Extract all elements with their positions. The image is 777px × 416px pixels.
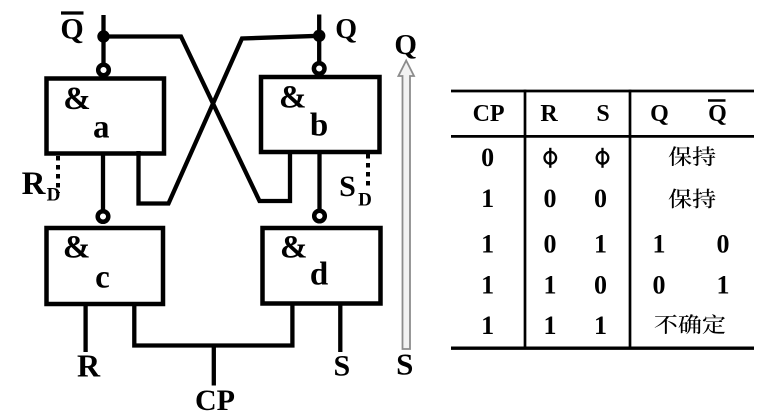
svg-text:&: & xyxy=(280,229,308,265)
truth table vertical divider RS/QQbar xyxy=(629,90,632,349)
output bubble of gate b xyxy=(314,63,325,74)
wire Qbar output stub xyxy=(101,15,105,64)
wire S input stub xyxy=(338,303,342,353)
svg-text:0: 0 xyxy=(594,184,607,213)
svg-text:D: D xyxy=(47,185,61,206)
nand gate a xyxy=(47,79,165,154)
svg-text:&: & xyxy=(63,81,91,117)
wire Q output stub xyxy=(317,15,321,63)
nand gate b xyxy=(261,77,380,152)
svg-text:Q: Q xyxy=(650,101,669,127)
svg-text:1: 1 xyxy=(544,311,557,340)
output bubble of gate d xyxy=(314,211,325,222)
svg-text:S: S xyxy=(396,347,413,382)
svg-text:Q: Q xyxy=(394,29,417,61)
svg-text:&: & xyxy=(63,230,91,266)
row1 R value phi xyxy=(545,148,557,168)
output bubble of gate c xyxy=(98,211,109,222)
svg-text:0: 0 xyxy=(481,143,494,172)
row1 result baochi xyxy=(669,146,716,166)
svg-text:1: 1 xyxy=(481,271,494,300)
svg-text:Q: Q xyxy=(708,101,727,127)
svg-text:R: R xyxy=(22,166,47,202)
svg-text:1: 1 xyxy=(544,271,557,300)
svg-text:R: R xyxy=(77,348,101,384)
junction dot node Q xyxy=(313,30,325,42)
svg-text:b: b xyxy=(310,108,328,144)
svg-text:a: a xyxy=(93,109,110,145)
svg-text:0: 0 xyxy=(544,184,557,213)
wire gate c output to gate a input xyxy=(101,153,105,210)
svg-text:Q: Q xyxy=(60,13,83,46)
svg-text:CP: CP xyxy=(195,384,235,416)
svg-text:1: 1 xyxy=(717,271,730,300)
nand gate d xyxy=(263,228,381,304)
overline of Qbar xyxy=(61,11,84,14)
wire CP net xyxy=(134,303,292,346)
block arrow S to Q xyxy=(398,61,414,350)
svg-text:1: 1 xyxy=(481,230,494,259)
wire Q horizontal to crossover xyxy=(139,36,320,204)
row2 result baochi xyxy=(669,189,716,209)
svg-text:Q: Q xyxy=(335,14,357,45)
wire R input stub xyxy=(83,304,87,352)
row5 result buqueding xyxy=(655,314,725,334)
svg-text:S: S xyxy=(339,170,356,203)
nand gate c xyxy=(47,228,164,304)
svg-text:R: R xyxy=(540,101,558,127)
dotted async input SD xyxy=(366,154,370,188)
truth table bottom border xyxy=(451,347,754,350)
truth table header underline xyxy=(451,135,754,138)
svg-text:c: c xyxy=(95,259,110,295)
svg-text:0: 0 xyxy=(594,271,607,300)
svg-text:S: S xyxy=(596,101,609,127)
svg-text:0: 0 xyxy=(653,271,666,300)
svg-text:&: & xyxy=(279,79,307,115)
row1 S value phi xyxy=(597,148,609,168)
svg-text:1: 1 xyxy=(594,230,607,259)
output bubble of gate a xyxy=(98,65,109,76)
svg-text:0: 0 xyxy=(544,230,557,259)
overline of header Qbar xyxy=(708,99,726,101)
junction dot node Qbar xyxy=(97,30,109,42)
svg-text:CP: CP xyxy=(473,101,505,127)
wire CP stub xyxy=(212,346,216,386)
svg-text:1: 1 xyxy=(653,230,666,259)
svg-text:S: S xyxy=(333,350,350,383)
truth table top border xyxy=(451,90,754,93)
wire Qbar horizontal to crossover xyxy=(104,37,291,202)
svg-text:1: 1 xyxy=(481,311,494,340)
svg-text:d: d xyxy=(310,257,328,293)
svg-text:1: 1 xyxy=(481,184,494,213)
svg-text:D: D xyxy=(358,190,372,211)
svg-text:0: 0 xyxy=(717,230,730,259)
truth table vertical divider CP/RS xyxy=(524,90,527,349)
dotted async input RD xyxy=(56,156,60,193)
svg-text:1: 1 xyxy=(594,311,607,340)
wire gate d output to gate b input xyxy=(317,152,321,210)
